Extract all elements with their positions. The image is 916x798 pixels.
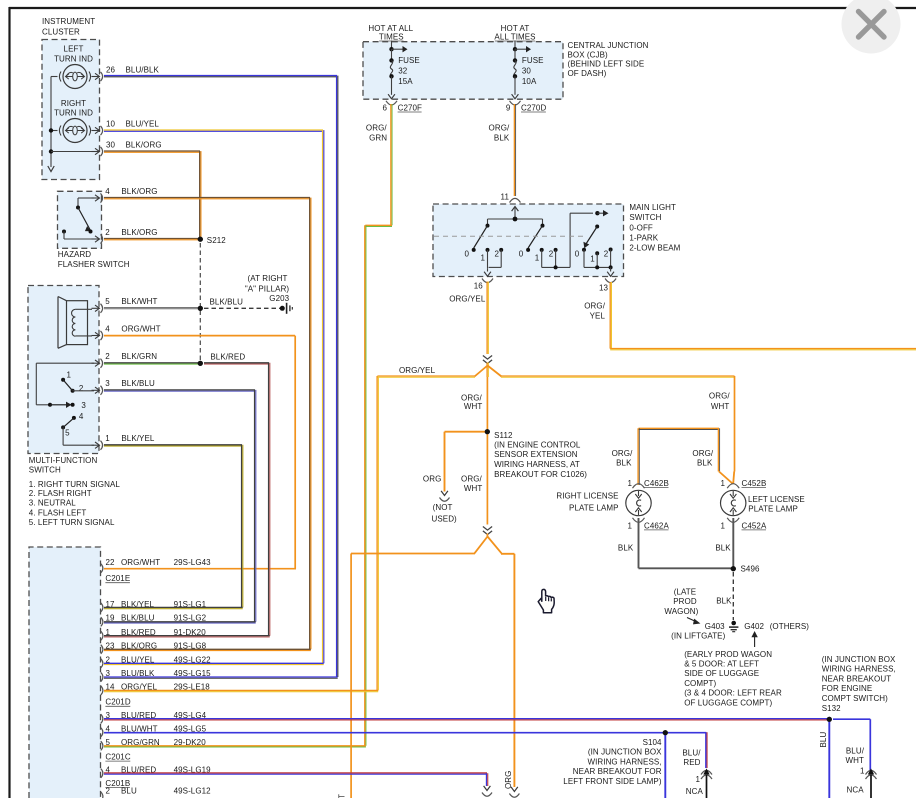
wire ORG/GRN to pin 5 C201C [104, 745, 366, 747]
svg-text:2-LOW BEAM: 2-LOW BEAM [629, 244, 680, 253]
svg-text:WAGON): WAGON) [664, 607, 698, 616]
hand cursor icon [538, 589, 554, 612]
svg-text:11: 11 [501, 193, 510, 202]
svg-text:ORG/: ORG/ [489, 124, 510, 133]
C201 pin 14 ORG/YEL [101, 686, 103, 695]
svg-text:23: 23 [106, 642, 116, 651]
central junction box [363, 42, 563, 99]
svg-text:BLU: BLU [819, 732, 828, 748]
svg-text:2: 2 [549, 249, 554, 258]
svg-text:6: 6 [382, 103, 387, 112]
dashed wire BLK/BLU to G203 [204, 307, 280, 309]
MFS coil tap to pin 5 [75, 308, 92, 310]
svg-text:3: 3 [81, 401, 86, 410]
svg-text:C270F: C270F [398, 103, 422, 112]
svg-text:(IN LIFTGATE): (IN LIFTGATE) [671, 632, 725, 641]
svg-text:1: 1 [481, 253, 486, 262]
svg-text:4: 4 [79, 412, 84, 421]
svg-text:(IN JUNCTION BOX: (IN JUNCTION BOX [822, 655, 896, 664]
svg-text:1: 1 [105, 434, 110, 443]
svg-text:2: 2 [79, 384, 84, 393]
svg-text:(3 & 4 DOOR: LEFT REAR: (3 & 4 DOOR: LEFT REAR [684, 689, 782, 698]
svg-text:WHT: WHT [464, 402, 482, 411]
svg-text:29S-LE18: 29S-LE18 [174, 683, 211, 692]
svg-text:COMPT SWITCH): COMPT SWITCH) [822, 694, 888, 703]
svg-text:CLUSTER: CLUSTER [42, 27, 80, 36]
hazard switch contact dot right [89, 230, 93, 234]
MFS contact 2 dot [71, 389, 75, 393]
svg-text:(IN JUNCTION BOX: (IN JUNCTION BOX [588, 748, 662, 757]
svg-text:BLK/RED: BLK/RED [121, 628, 156, 637]
svg-text:5. LEFT TURN SIGNAL: 5. LEFT TURN SIGNAL [29, 518, 115, 527]
svg-text:BLK/ORG: BLK/ORG [126, 140, 162, 149]
MFS wire contact5 to pin 1 [62, 427, 64, 445]
svg-text:91S-LG2: 91S-LG2 [174, 614, 207, 623]
wire ORG/BLK from pin9 to MLS pin11 [513, 104, 515, 196]
MFS coil tap to pin 4 [75, 335, 92, 337]
MFS pin 1 connector [92, 444, 99, 446]
Y split upper [475, 366, 488, 377]
svg-text:4: 4 [105, 187, 110, 196]
C201 pin 3 BLU/BLK [101, 672, 103, 681]
svg-text:SWITCH: SWITCH [29, 465, 61, 474]
svg-text:PROD: PROD [673, 597, 697, 606]
wire BLK/YEL vertical [241, 445, 243, 608]
svg-text:S496: S496 [741, 564, 760, 573]
svg-text:S104: S104 [643, 738, 662, 747]
MLS riser to right section [569, 213, 571, 267]
svg-text:C201B: C201B [105, 779, 130, 788]
svg-text:2: 2 [105, 228, 110, 237]
svg-text:G402: G402 [744, 622, 764, 631]
MFS pivot dot [48, 403, 52, 407]
svg-text:BLK/ORG: BLK/ORG [121, 642, 157, 651]
MLS top distribution bar [488, 218, 543, 220]
wire hazard pin4 BLK/ORG vertical [309, 198, 311, 650]
MFS contact 3 dot [71, 403, 75, 407]
wire MFS pin1 BLK/YEL horizontal [104, 444, 242, 446]
svg-text:ORG: ORG [504, 771, 513, 789]
fuse 32 15A [391, 41, 393, 50]
page frame top border [9, 7, 916, 9]
C201 pin 3 BLU/RED [101, 714, 103, 723]
svg-text:1: 1 [695, 775, 700, 784]
svg-text:13: 13 [599, 284, 609, 293]
wire ORG branch to not used [445, 431, 488, 433]
svg-text:WIRING HARNESS,: WIRING HARNESS, [822, 665, 896, 674]
junction dot BLK/WHT-BLK/BLU [198, 306, 203, 311]
svg-text:SWITCH: SWITCH [629, 213, 661, 222]
junction dot BLK/GRN top [198, 361, 203, 366]
wire MFS pin5 BLK/WHT [104, 307, 200, 309]
svg-text:30: 30 [106, 140, 116, 149]
wire ORG/GRN vertical from pin6 [390, 104, 392, 225]
wire MFS pin4 ORG/WHT horizontal [104, 335, 295, 337]
svg-text:32: 32 [398, 67, 408, 76]
ground G203 symbol [280, 306, 285, 311]
MFS pin 3 connector [92, 389, 99, 391]
svg-text:4. FLASH LEFT: 4. FLASH LEFT [29, 508, 87, 517]
svg-text:2. FLASH RIGHT: 2. FLASH RIGHT [29, 489, 92, 498]
svg-text:USED): USED) [432, 515, 458, 524]
hazard switch pivot dot [76, 206, 80, 210]
left license plate lamp [721, 490, 746, 515]
hazard switch lever [78, 208, 91, 231]
ground symbol G403/G402 [731, 621, 736, 626]
svg-text:INSTRUMENT: INSTRUMENT [42, 17, 95, 26]
svg-text:BLU/YEL: BLU/YEL [126, 119, 160, 128]
junction dot bus-pin30 [49, 149, 53, 153]
svg-text:(LATE: (LATE [674, 588, 696, 597]
splice S104 [663, 730, 668, 735]
MLS right output wires [583, 250, 585, 268]
MLS right section pivot [596, 213, 598, 226]
svg-text:OF LUGGAGE COMPT): OF LUGGAGE COMPT) [684, 698, 772, 707]
wire ORG/GRN vertical long [364, 225, 366, 746]
svg-text:ORG/GRN: ORG/GRN [121, 738, 160, 747]
C201 pin 1 BLK/RED [101, 631, 103, 640]
MLS left contacts [472, 248, 476, 252]
close button [842, 0, 901, 54]
svg-text:16: 16 [474, 281, 484, 290]
wire S104 right branch BLU/RED [668, 732, 706, 734]
svg-text:& 5 DOOR: AT LEFT: & 5 DOOR: AT LEFT [684, 660, 759, 669]
svg-text:"A" PILLAR): "A" PILLAR) [245, 284, 290, 293]
svg-text:FOR ENGINE: FOR ENGINE [822, 684, 873, 693]
wire 10 BLU/YEL horizontal [104, 129, 323, 131]
svg-text:9: 9 [506, 103, 511, 112]
MLS right lever [585, 227, 597, 246]
wire ORG/BLK distribution [639, 427, 720, 429]
wire BLK/BLU vertical [254, 390, 256, 622]
svg-text:19: 19 [106, 614, 116, 623]
svg-text:S112: S112 [494, 431, 513, 440]
splice dot S132 top [827, 717, 832, 722]
svg-text:G203: G203 [269, 294, 289, 303]
svg-text:PLATE LAMP: PLATE LAMP [569, 503, 619, 512]
wire ORG/GRN jog [365, 224, 392, 226]
svg-text:BLK/BLU: BLK/BLU [121, 614, 155, 623]
svg-text:COMPT): COMPT) [684, 679, 716, 688]
lamp LEFT TURN IND [63, 65, 87, 89]
MLS left section pivot [487, 219, 489, 226]
MFS internal bus from pin 2 [36, 362, 94, 364]
splice S112 [485, 429, 490, 434]
svg-text:NEAR BREAKOUT FOR: NEAR BREAKOUT FOR [573, 767, 662, 776]
svg-text:G403: G403 [705, 622, 725, 631]
svg-text:14: 14 [106, 683, 116, 692]
svg-text:1: 1 [627, 521, 632, 530]
MFS coil [72, 309, 76, 336]
hazard pin 2 connector [92, 238, 99, 240]
inline connector chevrons C1026 lower [483, 527, 492, 531]
MLS left lever [474, 226, 488, 248]
dashed wire S212 down [199, 243, 201, 361]
MLS right contacts [582, 248, 586, 252]
wire hazard pin4 BLK/ORG to pin 23 C201D [104, 648, 311, 650]
C201 pin 2 BLU [101, 792, 103, 798]
wire 10 BLU/YEL to pin 2 C201D [104, 662, 324, 664]
MLS left section output wires [487, 250, 489, 268]
wire hazard pin4 BLK/ORG horizontal [104, 197, 310, 199]
pin 10 connector [92, 130, 99, 132]
svg-text:BLK/BLU: BLK/BLU [210, 298, 244, 307]
C201 pin 5 ORG/GRN [101, 741, 103, 750]
svg-text:GRN: GRN [369, 134, 387, 143]
svg-text:1: 1 [720, 521, 725, 530]
svg-text:ORG/: ORG/ [461, 475, 482, 484]
off-page arrow BLU/RED [484, 786, 491, 791]
svg-text:3: 3 [105, 379, 110, 388]
svg-text:1-PARK: 1-PARK [629, 234, 658, 243]
wire 10 BLU/YEL vertical [322, 130, 324, 663]
MFS contact 5 dot [61, 425, 65, 429]
svg-text:FLASHER SWITCH: FLASHER SWITCH [58, 260, 130, 269]
MLS middle lever [528, 226, 542, 248]
bus arrow down [48, 166, 54, 172]
hazard switch internal contact wire pin4 [78, 197, 94, 199]
C201 pin 17 BLK/YEL [101, 603, 103, 612]
arrow to G403 [687, 618, 698, 623]
svg-text:0: 0 [465, 249, 470, 258]
svg-text:BLK/ORG: BLK/ORG [121, 228, 157, 237]
off-page arrow ORG [511, 787, 518, 792]
svg-text:LEFT LICENSE: LEFT LICENSE [748, 495, 805, 504]
svg-text:FUSE: FUSE [522, 56, 544, 65]
MLS pin 13 exit connector [610, 267, 612, 271]
MFS pin 4 connector [92, 335, 99, 337]
svg-text:BLK/YEL: BLK/YEL [121, 600, 154, 609]
MFS horn symbol [58, 297, 67, 349]
svg-text:WHT: WHT [711, 402, 729, 411]
svg-text:2: 2 [604, 249, 609, 258]
svg-text:RED: RED [683, 758, 700, 767]
splice dot S104 top [663, 730, 668, 735]
MLS middle section pivot [542, 219, 544, 226]
svg-text:C201C: C201C [105, 753, 130, 762]
svg-text:1: 1 [860, 766, 865, 775]
wire 30 BLK/ORG horizontal [104, 150, 200, 152]
svg-text:29-DK20: 29-DK20 [174, 738, 207, 747]
wire ORG/YEL horizontal right arm [501, 375, 735, 377]
svg-text:BLU/: BLU/ [682, 749, 701, 758]
svg-text:WIRING HARNESS,: WIRING HARNESS, [587, 757, 661, 766]
wire S132 BLU drop [828, 721, 830, 798]
wire MFS pin4 ORG/WHT vertical [294, 336, 296, 569]
svg-text:91S-LG8: 91S-LG8 [174, 642, 207, 651]
svg-text:C452A: C452A [742, 521, 767, 530]
multi-function switch box [28, 286, 99, 454]
svg-text:2: 2 [106, 787, 111, 796]
hazard switch contact dot left [62, 230, 66, 234]
wire BLK/BLU to pin 19 C201D [104, 621, 256, 623]
MLS pin 11 entry connector [510, 198, 521, 202]
svg-text:ORG/: ORG/ [709, 392, 730, 401]
svg-text:BOX (CJB): BOX (CJB) [568, 50, 609, 59]
svg-text:1: 1 [720, 479, 725, 488]
svg-text:ORG/YEL: ORG/YEL [449, 294, 486, 303]
svg-text:NCA: NCA [847, 785, 865, 794]
svg-text:3: 3 [106, 669, 111, 678]
svg-text:1. RIGHT TURN SIGNAL: 1. RIGHT TURN SIGNAL [29, 480, 121, 489]
svg-text:BLK: BLK [618, 543, 634, 552]
svg-text:RIGHT LICENSE: RIGHT LICENSE [556, 491, 618, 500]
svg-text:ALL TIMES: ALL TIMES [494, 32, 535, 41]
MFS contact 4 dot [72, 416, 76, 420]
svg-text:CENTRAL JUNCTION: CENTRAL JUNCTION [568, 41, 649, 50]
splice S212 [198, 237, 203, 242]
right license plate lamp [626, 490, 651, 515]
wire ORG/WHT horizontal left arm lower [351, 553, 475, 555]
hazard flasher switch box [58, 191, 102, 248]
instrument cluster box [42, 40, 100, 180]
MLS right feed dot and arrow [595, 211, 599, 215]
svg-text:49S-LG22: 49S-LG22 [174, 656, 212, 665]
page frame left border [8, 7, 10, 798]
svg-text:BLU: BLU [121, 787, 137, 796]
svg-text:FUSE: FUSE [398, 56, 420, 65]
splice S496 [731, 566, 736, 571]
svg-text:BLK: BLK [716, 596, 732, 605]
svg-text:10: 10 [106, 119, 116, 128]
MFS contact 5-4 link [63, 418, 74, 428]
svg-text:BLK/BLU: BLK/BLU [121, 379, 155, 388]
svg-text:MULTI-FUNCTION: MULTI-FUNCTION [29, 456, 98, 465]
svg-text:BLK: BLK [715, 543, 731, 552]
svg-text:0: 0 [575, 249, 580, 258]
svg-text:49S-LG15: 49S-LG15 [174, 669, 212, 678]
main light switch box [433, 204, 624, 277]
svg-text:(AT RIGHT: (AT RIGHT [248, 274, 288, 283]
svg-text:ORG/: ORG/ [366, 124, 387, 133]
svg-text:BLK/ORG: BLK/ORG [121, 187, 157, 196]
svg-text:C452B: C452B [742, 479, 767, 488]
svg-text:WHT: WHT [464, 484, 482, 493]
arrow to G402 [754, 636, 756, 647]
svg-text:0: 0 [519, 249, 524, 258]
svg-text:RIGHT: RIGHT [61, 99, 86, 108]
svg-text:NEAR BREAKOUT: NEAR BREAKOUT [822, 674, 892, 683]
svg-text:2: 2 [106, 656, 111, 665]
svg-text:S132: S132 [822, 704, 841, 713]
svg-text:1: 1 [627, 479, 632, 488]
svg-text:3. NEUTRAL: 3. NEUTRAL [29, 499, 77, 508]
wire ORG/WHT below lower connector [486, 534, 488, 537]
svg-text:BREAKOUT FOR C1026): BREAKOUT FOR C1026) [494, 470, 587, 479]
splice dot S212 top [198, 237, 203, 242]
svg-text:ORG/: ORG/ [584, 301, 605, 310]
svg-text:ORG/WHT: ORG/WHT [121, 558, 160, 567]
svg-text:SIDE OF LUGGAGE: SIDE OF LUGGAGE [684, 669, 759, 678]
svg-text:10A: 10A [522, 77, 537, 86]
svg-text:(EARLY PROD WAGON: (EARLY PROD WAGON [684, 650, 772, 659]
wire S132 right branch BLU/WHT [833, 718, 870, 720]
svg-text:(OTHERS): (OTHERS) [770, 622, 810, 631]
svg-text:ORG/: ORG/ [612, 449, 633, 458]
svg-text:ORG: ORG [423, 475, 441, 484]
wire MFS pin3 BLK/BLU horizontal [104, 389, 255, 391]
C201 pin 19 BLK/BLU [101, 617, 103, 626]
svg-text:(NOT: (NOT [433, 503, 453, 512]
svg-text:WHT: WHT [846, 756, 864, 765]
svg-text:C462B: C462B [644, 479, 669, 488]
wire ORG/YEL from pin16 [486, 282, 488, 355]
junction dot bus-right turn [49, 128, 53, 132]
wire BLK/RED horizontal [204, 362, 269, 364]
connector block C201 box [29, 547, 101, 798]
wire ORG/WHT vertical to S112 [486, 377, 488, 430]
svg-text:YEL: YEL [590, 312, 606, 321]
wire ORG right arm lower [501, 553, 514, 555]
svg-text:22: 22 [106, 558, 116, 567]
svg-text:15A: 15A [398, 77, 413, 86]
svg-text:BLU/BLK: BLU/BLK [121, 669, 155, 678]
pin 30 connector [51, 151, 94, 153]
svg-text:(BEHIND LEFT SIDE: (BEHIND LEFT SIDE [568, 60, 645, 69]
svg-text:TIMES: TIMES [379, 32, 404, 41]
wire 30 BLK/ORG vertical to S212 [199, 151, 201, 239]
wire hazard pin2 BLK/ORG to S212 [104, 238, 200, 240]
svg-text:C201D: C201D [105, 698, 130, 707]
svg-text:ORG/: ORG/ [461, 393, 482, 402]
svg-text:MAIN LIGHT: MAIN LIGHT [629, 203, 676, 212]
wire BLK/RED to pin 1 C201D [104, 635, 270, 637]
svg-text:2: 2 [105, 352, 110, 361]
svg-text:5: 5 [106, 738, 111, 747]
svg-text:ORG/: ORG/ [692, 449, 713, 458]
svg-text:1: 1 [535, 253, 540, 262]
wire ORG/WHT drop to left lamp [734, 376, 736, 472]
wire 13 ORG/YEL horizontal to right edge [610, 348, 916, 350]
MLS middle output wires [541, 250, 543, 268]
hazard pin 4 connector [92, 197, 99, 199]
instrument cluster internal bus wire [51, 76, 58, 78]
MFS contact 1 dot [61, 378, 65, 382]
svg-text:(IN ENGINE CONTROL: (IN ENGINE CONTROL [494, 440, 581, 449]
C201 pin 4 BLU/WHT [101, 728, 103, 737]
junction dot BLK/WHT top [198, 306, 203, 311]
svg-text:T: T [338, 794, 347, 798]
svg-text:BLK/RED: BLK/RED [210, 352, 245, 361]
svg-text:BLK: BLK [616, 459, 632, 468]
pin 26 connector [92, 76, 99, 78]
svg-text:91-DK20: 91-DK20 [174, 628, 207, 637]
svg-text:BLK/GRN: BLK/GRN [121, 352, 157, 361]
Y split lower [475, 537, 488, 554]
svg-text:ORG/WHT: ORG/WHT [121, 324, 160, 333]
wire ORG/WHT vertical down left [350, 554, 352, 798]
C201 pin 22 ORG/WHT [101, 564, 103, 573]
wire ORG/YEL to pin 14 C201D [104, 689, 378, 691]
wire ORG/YEL horizontal left arm [377, 375, 475, 377]
svg-text:LEFT: LEFT [64, 45, 84, 54]
svg-text:BLK: BLK [494, 134, 510, 143]
svg-text:C201E: C201E [105, 574, 130, 583]
svg-text:BLK: BLK [697, 459, 713, 468]
wire BLK/YEL to pin 17 C201E [104, 606, 243, 608]
svg-text:ORG/YEL: ORG/YEL [399, 366, 436, 375]
svg-text:1: 1 [106, 628, 111, 637]
svg-text:BLU/BLK: BLU/BLK [126, 65, 160, 74]
svg-text:C462A: C462A [644, 521, 669, 530]
wire MFS pin2 BLK/GRN [104, 362, 200, 364]
wire BLK right lamp [638, 518, 640, 568]
svg-text:C270D: C270D [521, 103, 546, 112]
MLS mechanical link dashed line [434, 235, 586, 237]
svg-text:5: 5 [65, 428, 70, 437]
svg-text:0-OFF: 0-OFF [629, 224, 653, 233]
svg-text:1: 1 [67, 370, 72, 379]
